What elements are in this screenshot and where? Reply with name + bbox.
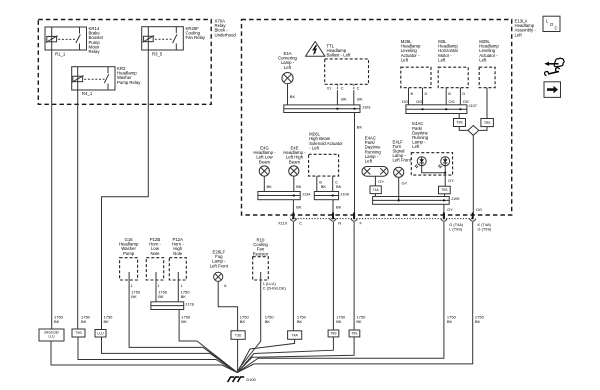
svg-text:LLU: LLU — [97, 331, 104, 335]
svg-text:1: 1 — [180, 284, 182, 288]
svg-text:J178: J178 — [185, 302, 193, 307]
svg-text:BK: BK — [321, 184, 327, 189]
svg-text:J134: J134 — [302, 191, 311, 196]
svg-text:G100: G100 — [246, 377, 257, 382]
svg-text:OG: OG — [402, 99, 408, 104]
svg-text:BK: BK — [336, 184, 342, 189]
svg-text:D: D — [462, 92, 465, 96]
svg-text:G (T4A)L (T9S): G (T4A)L (T9S) — [449, 222, 464, 231]
svg-text:BK: BK — [341, 97, 347, 102]
svg-text:BK: BK — [296, 204, 302, 209]
svg-text:BK: BK — [296, 184, 302, 189]
svg-text:R4_1: R4_1 — [82, 91, 93, 96]
svg-text:C: C — [357, 86, 360, 90]
svg-text:N: N — [338, 221, 341, 226]
svg-text:D: D — [425, 92, 428, 96]
svg-text:R1_1: R1_1 — [55, 52, 66, 57]
svg-text:TR9: TR9 — [484, 121, 491, 125]
svg-text:OG: OG — [416, 99, 422, 104]
svg-text:GY: GY — [447, 207, 453, 212]
svg-text:C: C — [555, 26, 558, 31]
svg-text:BK: BK — [357, 124, 363, 129]
svg-text:T4A: T4A — [292, 333, 299, 337]
svg-text:J103: J103 — [362, 105, 370, 110]
svg-text:R3_5: R3_5 — [152, 52, 163, 57]
svg-text:BK: BK — [357, 97, 363, 102]
svg-text:BK: BK — [290, 94, 296, 99]
svg-text:T9S: T9S — [330, 332, 337, 336]
svg-text:C: C — [299, 221, 302, 226]
svg-text:GY: GY — [448, 178, 454, 183]
svg-text:X1: X1 — [327, 86, 332, 90]
svg-text:T9S: T9S — [456, 121, 463, 125]
svg-text:GY: GY — [402, 181, 408, 186]
svg-text:1: 1 — [158, 284, 160, 288]
svg-text:X110: X110 — [278, 221, 288, 226]
svg-text:T9S: T9S — [441, 188, 448, 192]
svg-text:T9S: T9S — [75, 331, 82, 335]
svg-text:T3U: T3U — [235, 333, 242, 337]
svg-text:C: C — [341, 86, 344, 90]
svg-text:T9S: T9S — [351, 332, 358, 336]
svg-text:J108: J108 — [340, 191, 348, 196]
svg-text:J109: J109 — [451, 196, 459, 201]
svg-text:OG: OG — [476, 207, 482, 212]
svg-text:1: 1 — [131, 284, 133, 288]
svg-text:K (T4A)G (T9S): K (T4A)G (T9S) — [478, 222, 493, 231]
svg-text:BK: BK — [267, 184, 273, 189]
svg-text:T4A: T4A — [373, 188, 380, 192]
svg-text:GY: GY — [378, 179, 384, 184]
svg-text:J107: J107 — [469, 103, 477, 108]
svg-text:BK: BK — [336, 204, 342, 209]
svg-text:OG: OG — [449, 99, 455, 104]
